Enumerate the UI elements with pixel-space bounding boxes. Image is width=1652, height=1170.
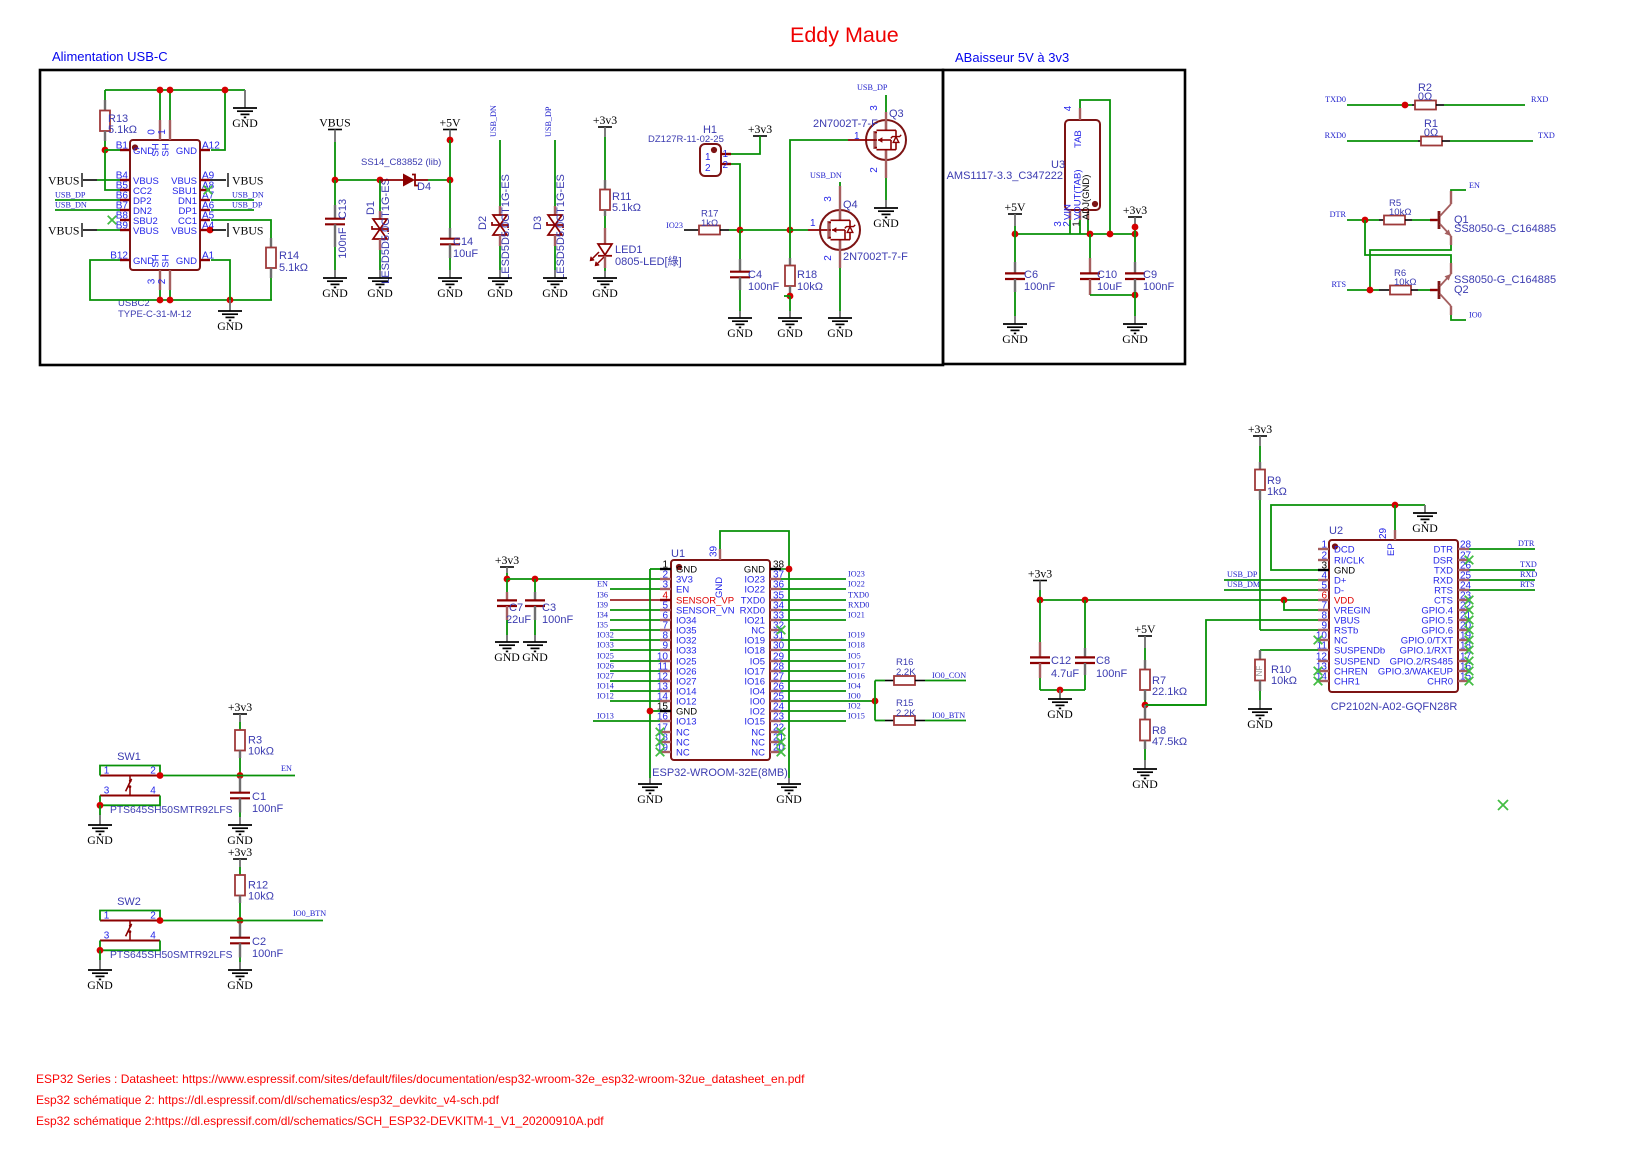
wire [781,690,846,692]
power flag +3v3 [1028,567,1052,581]
wire [790,229,808,231]
wire [1014,292,1016,316]
wire [239,958,241,963]
wire [104,90,106,100]
junction [207,227,214,234]
wire [1469,579,1535,581]
wire [610,629,660,631]
svg-text:5.1kΩ: 5.1kΩ [108,124,137,136]
wire [1084,600,1086,648]
wire [334,142,336,180]
svg-text:29: 29 [1378,527,1389,539]
junction [97,802,104,809]
power flag VBUS [319,116,350,130]
svg-text:IO23: IO23 [848,570,865,579]
svg-text:RXD: RXD [1520,570,1537,579]
svg-text:CHR1: CHR1 [1334,677,1360,688]
svg-text:+3v3: +3v3 [1123,203,1147,217]
ground [227,970,253,992]
svg-text:TAB: TAB [1073,130,1084,148]
svg-text:100nF: 100nF [542,614,573,626]
wire [100,796,160,806]
junction [1392,502,1399,509]
svg-text:USB_DP: USB_DP [232,201,263,210]
resistor R9 1k [1255,436,1287,500]
port VBUS A9 [210,173,263,188]
svg-text:Alimentation USB-C: Alimentation USB-C [52,49,168,64]
junction [1281,597,1288,604]
wire [55,199,120,201]
power flag +3v3 [1248,422,1272,436]
wire [604,271,606,278]
wire [781,670,846,672]
wire [239,817,241,825]
wire [160,775,295,777]
svg-text:GND: GND [777,326,803,340]
wire [885,178,887,200]
svg-text:GND: GND [1412,521,1438,535]
svg-text:DCD: DCD [1334,545,1355,556]
wire [506,567,508,573]
connector H1 DZ127R-11-02-25 [648,124,731,176]
wire [428,179,450,181]
resistor R3 10k [235,714,274,758]
wire [1040,599,1318,601]
svg-text:IO17: IO17 [848,662,865,671]
wire [449,258,451,270]
svg-text:1: 1 [705,152,711,163]
wire [1347,140,1418,142]
svg-text:1: 1 [810,218,816,229]
wire [239,722,241,730]
wire [1014,234,1016,262]
wire [1080,100,1110,234]
svg-text:2.2K: 2.2K [896,708,916,719]
svg-text:C3: C3 [542,602,556,614]
svg-text:+5V: +5V [1004,200,1026,214]
wire [1134,316,1136,324]
svg-text:C13: C13 [337,199,349,219]
svg-text:10kΩ: 10kΩ [1271,675,1297,687]
svg-text:Q4: Q4 [843,199,858,211]
svg-text:0: 0 [147,129,158,135]
wire [739,230,741,259]
resistor R16 2.2K [885,657,925,685]
wire [781,609,846,611]
svg-text:GND: GND [1122,332,1148,346]
svg-text:SH: SH [161,254,172,267]
junction [1367,287,1374,294]
svg-text:GND: GND [367,286,393,300]
wire [781,619,846,621]
svg-text:3: 3 [104,786,110,797]
wire [788,778,790,784]
wire [1424,505,1426,513]
wire [99,950,101,960]
border frame right box [943,70,1185,364]
wire [449,140,451,180]
svg-text:22uF: 22uF [506,614,531,626]
svg-text:10kΩ: 10kΩ [797,281,823,293]
wire [1260,649,1318,651]
switch SW1 PTS645SH50SMTR92LFS [100,751,233,816]
svg-text:GND: GND [542,286,568,300]
wire [379,250,381,270]
svg-text:C9: C9 [1143,269,1157,281]
junction [447,137,454,144]
wire [499,246,501,270]
svg-text:USB_DN: USB_DN [232,191,264,200]
wire [1039,678,1041,690]
svg-text:R14: R14 [279,250,299,262]
wire [506,573,508,579]
border frame left box [40,70,943,365]
wire [1134,234,1136,262]
svg-text:IO13: IO13 [676,717,697,728]
diode D2 LESD5D5.0CT1G-ES [477,140,512,280]
wire [604,137,606,180]
svg-text:DTR: DTR [1433,545,1453,556]
svg-text:IO33: IO33 [676,646,697,657]
wire [499,140,501,206]
svg-text:4: 4 [1063,105,1074,111]
wire [610,619,660,621]
svg-text:3: 3 [662,580,668,591]
svg-text:2: 2 [705,163,711,174]
resistor R5 10k [1379,198,1412,225]
wire [1015,233,1135,235]
svg-text:+3v3: +3v3 [228,700,252,714]
svg-text:IO33: IO33 [597,641,614,650]
junction [1132,224,1139,231]
svg-text:LESD5D5.0CT1G-ES: LESD5D5.0CT1G-ES [555,174,567,280]
power flag +3v3 [495,553,519,567]
wire [105,89,245,91]
svg-text:DTR: DTR [1518,539,1535,548]
wire [1365,220,1451,263]
wire pin4 SENSOR_VP [610,599,660,601]
ground [542,278,568,300]
svg-text:IO13: IO13 [597,712,614,721]
svg-text:2: 2 [869,167,880,173]
wire [610,700,660,702]
junction [872,698,879,705]
junction [447,177,454,184]
svg-text:NC: NC [676,748,690,759]
ground [1132,769,1158,791]
svg-text:1: 1 [157,129,168,135]
no-connect A8 [204,186,213,195]
ground [776,784,802,806]
svg-text:D3: D3 [532,216,544,230]
svg-text:DZ127R-11-02-25: DZ127R-11-02-25 [648,134,724,145]
svg-text:IO14: IO14 [597,682,614,691]
junction [787,227,794,234]
wire [1039,581,1041,591]
wire [1469,589,1535,591]
wire [1069,220,1071,234]
wire [449,130,451,141]
wire [1145,704,1206,706]
svg-text:D4: D4 [417,181,431,193]
wire [211,220,271,238]
wire [784,295,790,297]
transistor Q4 2N7002T-7-F [810,196,908,263]
wire [839,182,841,186]
svg-text:0Ω: 0Ω [1418,91,1432,103]
wire [1260,629,1318,631]
wire [449,180,451,228]
svg-text:LED1: LED1 [615,244,643,256]
wire [650,710,660,712]
svg-text:IO0: IO0 [1469,311,1482,320]
svg-text:IO0_BTN: IO0_BTN [293,909,326,918]
svg-text:EN: EN [597,580,608,589]
svg-text:A12: A12 [202,141,220,152]
wire [781,660,846,662]
power flag +3v3 [593,113,617,127]
capacitor C3 [525,579,573,626]
svg-text:GND: GND [176,256,197,267]
svg-text:10uF: 10uF [453,248,478,260]
junction [1362,217,1369,224]
junction [167,297,174,304]
wire [781,710,846,712]
svg-text:5.1kΩ: 5.1kΩ [612,202,641,214]
wire [1145,620,1318,705]
wire [781,639,846,641]
wire [1451,190,1466,191]
wire [1039,600,1041,642]
svg-text:C14: C14 [453,236,473,248]
wire [169,290,171,300]
wire [650,568,660,570]
wire [874,681,876,721]
svg-text:39: 39 [709,545,720,557]
svg-text:Q3: Q3 [889,108,904,120]
power flag +5V [1134,622,1156,636]
svg-text:ADJ(GND): ADJ(GND) [1081,175,1092,220]
wire [1418,289,1430,291]
svg-text:+3v3: +3v3 [748,122,772,136]
svg-text:EP: EP [1386,543,1397,556]
no-connect U2 left pins [1314,636,1323,645]
wire [739,290,741,311]
wire [731,136,760,154]
ground [637,784,663,806]
svg-text:2N7002T-7-F: 2N7002T-7-F [813,118,878,130]
svg-text:USB_DP: USB_DP [857,83,888,92]
junction [167,87,174,94]
svg-text:22.1kΩ: 22.1kΩ [1152,686,1187,698]
svg-text:NC: NC [751,748,765,759]
svg-text:IO4: IO4 [848,682,861,691]
wire [554,246,556,270]
wire [499,270,501,278]
wire [1144,700,1146,705]
wire [105,149,120,151]
resistor R8 47.5k [1140,705,1187,749]
junction [737,227,744,234]
capacitor C1 100nF [230,778,283,816]
svg-text:TXD0: TXD0 [848,591,869,600]
svg-text:LESD5D5.0CT1G-ES: LESD5D5.0CT1G-ES [500,174,512,280]
wire [684,229,699,231]
no-connect B8 [108,216,117,225]
resistor R15 2.2K [885,698,925,725]
wire [729,229,740,231]
svg-text:TXD0: TXD0 [1325,95,1346,104]
port VBUS B9 [48,223,97,238]
wire [211,90,225,150]
wire [239,758,241,776]
junction [222,87,229,94]
resistor R7 22.1k [1140,636,1187,700]
wire [610,670,660,672]
svg-text:5.1kΩ: 5.1kΩ [279,262,308,274]
wire [781,578,846,580]
wire [604,127,606,137]
svg-text:+3v3: +3v3 [1248,422,1272,436]
svg-text:AMS1117-3.3_C347222: AMS1117-3.3_C347222 [947,170,1063,182]
svg-text:GND: GND [217,319,243,333]
svg-text:GND: GND [592,286,618,300]
diode D1 LESD5D5.0CT1G-ES [365,178,392,284]
svg-text:C2: C2 [252,936,266,948]
wire [1090,294,1135,296]
wire [506,635,508,642]
svg-text:GND: GND [487,286,513,300]
svg-text:EN: EN [676,585,689,596]
capacitor C10 [1080,234,1122,295]
junction [1402,102,1409,109]
capacitor C8 [1075,600,1127,680]
wire [839,268,841,311]
svg-text:4: 4 [150,931,156,942]
svg-text:Q2: Q2 [1454,284,1469,296]
svg-text:100nF: 100nF [252,948,283,960]
ground [87,970,113,992]
svg-text:100nF: 100nF [252,803,283,815]
wire [100,766,160,776]
svg-text:VBUS: VBUS [171,226,197,237]
no-connect U1 pins 32 22 21 20 [777,626,786,635]
ground [217,311,243,333]
power flag +3v3 [748,122,772,136]
svg-text:IO16: IO16 [848,672,865,681]
svg-text:GND: GND [1047,707,1073,721]
wire [239,903,241,921]
ground [1412,513,1438,535]
junction [97,947,104,954]
svg-text:CP2102N-A02-GQFN28R: CP2102N-A02-GQFN28R [1331,701,1458,713]
svg-text:GND: GND [176,146,197,157]
svg-text:GND: GND [87,833,113,847]
svg-text:GND: GND [776,792,802,806]
svg-text:IO0: IO0 [848,692,861,701]
wire [1144,636,1146,648]
wire [239,867,241,875]
resistor R13 [100,90,137,150]
svg-text:VBUS: VBUS [232,174,263,188]
svg-text:I34: I34 [597,611,608,620]
svg-text:Esp32 schématique 2:https://dl: Esp32 schématique 2:https://dl.espressif… [36,1114,604,1128]
wire [781,649,846,651]
wire [97,179,120,181]
resistor R1 0ohm [1347,118,1450,146]
wire [790,140,848,230]
svg-text:GND: GND [637,792,663,806]
wire [649,569,651,778]
resistor R10 10k NF [1255,650,1297,691]
svg-text:1: 1 [723,149,729,160]
ground [322,278,348,300]
wire [379,180,381,211]
svg-text:C6: C6 [1024,269,1038,281]
svg-text:2N7002T-7-F: 2N7002T-7-F [843,251,908,263]
wire [270,278,272,300]
wire [925,680,966,682]
wire [1394,505,1396,530]
svg-text:IO18: IO18 [744,646,765,657]
svg-text:3: 3 [104,931,110,942]
svg-text:ABaisseur 5V à 3v3: ABaisseur 5V à 3v3 [955,50,1069,65]
svg-text:2: 2 [723,160,729,171]
port VBUS B4 [48,173,97,188]
wire [55,209,120,211]
svg-text:C4: C4 [748,269,762,281]
svg-text:10uF: 10uF [1097,281,1122,293]
wire [105,150,120,190]
junction [1142,702,1149,709]
wire [239,859,241,867]
wire [1144,648,1146,660]
wire [1444,104,1525,106]
svg-text:VBUS: VBUS [319,116,350,130]
resistor R12 10k [235,859,274,903]
svg-text:IO27: IO27 [597,672,614,681]
wire [781,700,875,702]
wire [1450,140,1533,142]
junction [157,917,164,924]
svg-text:2: 2 [150,766,156,777]
capacitor C6 [1005,234,1055,293]
wire [334,247,336,270]
wire [1134,295,1136,316]
wire [740,229,790,231]
wire [334,130,336,143]
svg-text:U1: U1 [671,548,685,560]
svg-text:Eddy Maue: Eddy Maue [790,23,899,47]
svg-text:USB_DP: USB_DP [55,191,86,200]
svg-text:C7: C7 [509,602,523,614]
svg-text:GND: GND [727,326,753,340]
svg-text:100nF: 100nF [1143,281,1174,293]
wire [610,609,660,611]
ground [873,208,899,230]
svg-text:SS14_C83852 (lib): SS14_C83852 (lib) [361,157,441,168]
svg-text:USB_DN: USB_DN [55,201,87,210]
svg-text:3: 3 [147,278,158,284]
svg-text:I39: I39 [597,601,608,610]
svg-text:SS8050-G_C164885: SS8050-G_C164885 [1454,274,1556,286]
capacitor C9 [1125,234,1174,293]
junction [1132,231,1139,238]
resistor R18 10k [785,230,823,294]
wire [649,778,651,784]
svg-text:GND: GND [1247,717,1273,731]
svg-text:GND: GND [1002,332,1028,346]
